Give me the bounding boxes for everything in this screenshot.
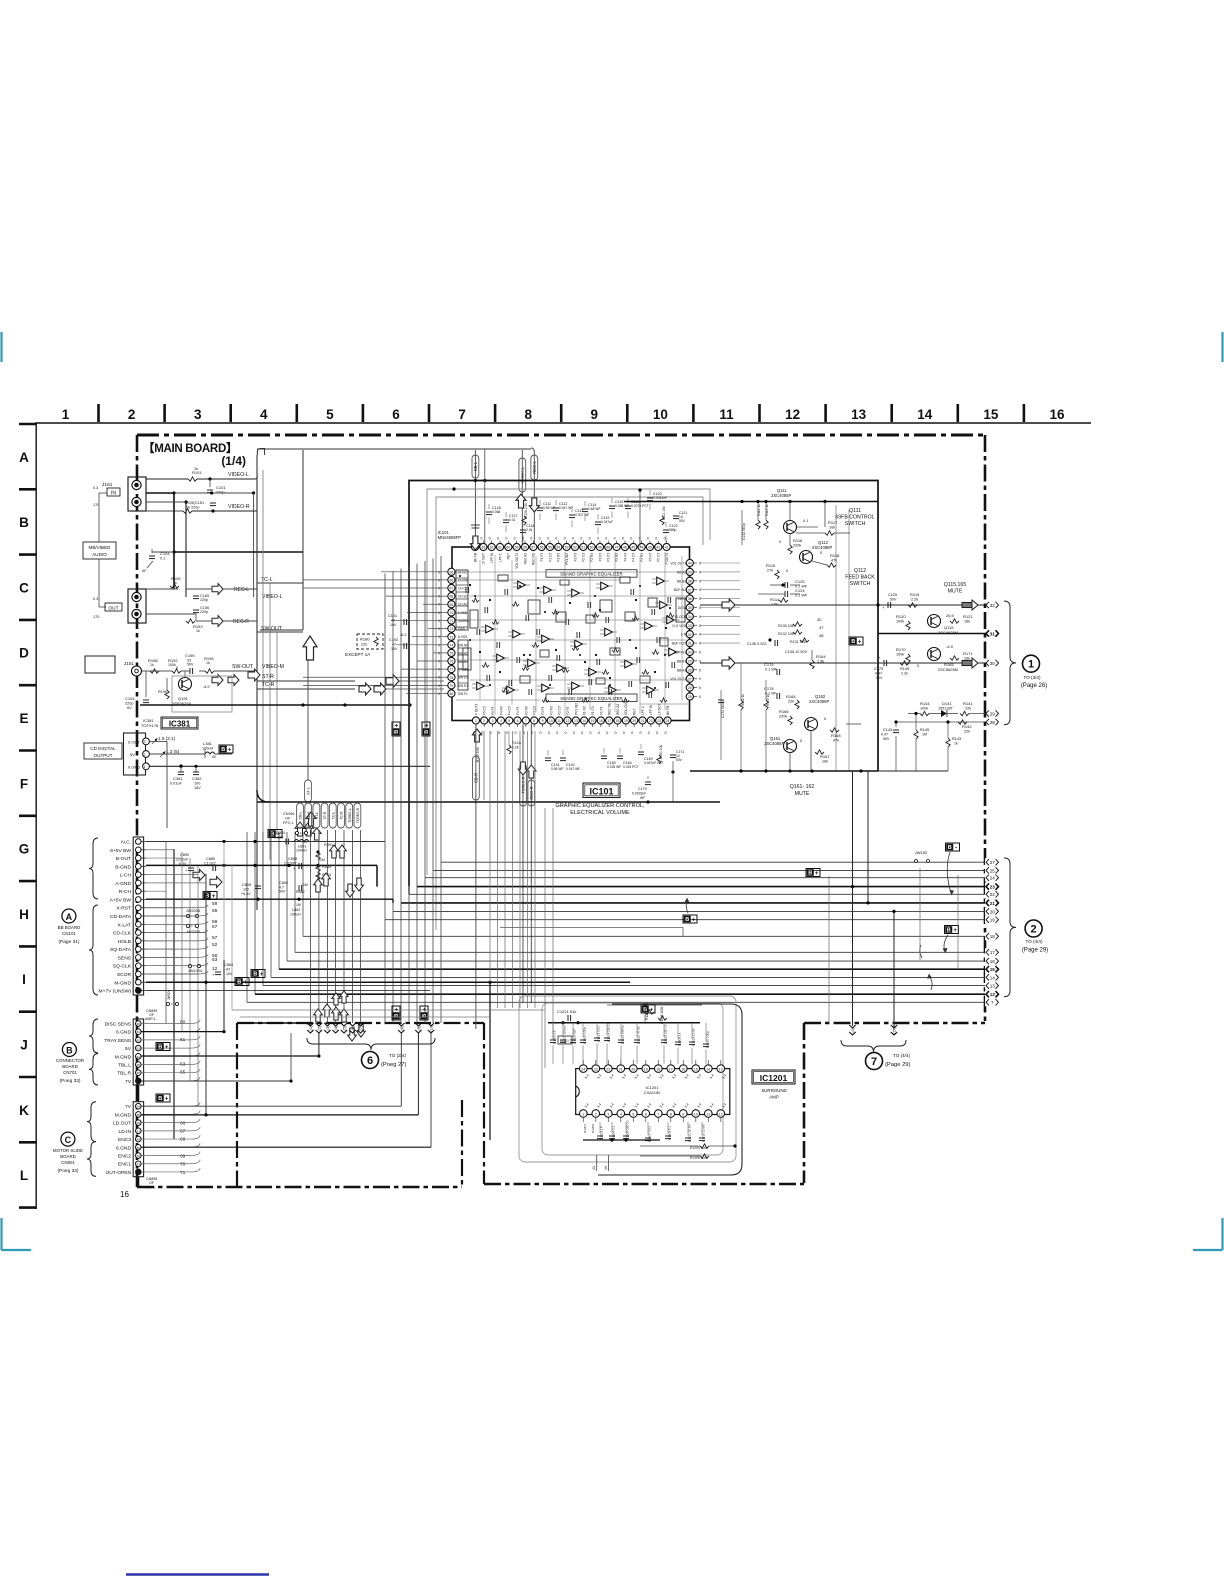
svg-text:WF: WF bbox=[640, 796, 645, 800]
svg-text:6.GND: 6.GND bbox=[116, 1145, 131, 1151]
svg-text:6: 6 bbox=[517, 719, 519, 723]
resistor R141 22k bbox=[960, 711, 969, 715]
brace outputs to page29 bbox=[1004, 858, 1016, 997]
svg-text:0: 0 bbox=[438, 643, 440, 647]
svg-text:R111 10k: R111 10k bbox=[662, 506, 666, 520]
svg-text:0: 0 bbox=[648, 731, 650, 735]
svg-text:6.GND: 6.GND bbox=[116, 1030, 131, 1036]
main board border right bbox=[984, 435, 987, 1023]
capacitor C178 0.1 RF bbox=[776, 693, 778, 699]
svg-text:C1202 51P: C1202 51P bbox=[573, 1029, 577, 1044]
vertical bus x263 bbox=[262, 470, 264, 890]
svg-text:9: 9 bbox=[542, 719, 544, 723]
wires right pins to Q section bbox=[700, 563, 740, 643]
svg-text:9: 9 bbox=[591, 407, 599, 422]
svg-text:(8): (8) bbox=[399, 1025, 404, 1031]
svg-text:F3 F3: F3 F3 bbox=[598, 553, 602, 562]
svg-text:69: 69 bbox=[180, 1153, 186, 1159]
svg-text:B: B bbox=[253, 972, 257, 978]
resistor R192 100k bbox=[172, 669, 181, 673]
svg-text:SQ-CLK: SQ-CLK bbox=[113, 964, 132, 970]
svg-text:OF: OF bbox=[285, 817, 291, 821]
bus corner verticals lower group bbox=[247, 832, 303, 1002]
svg-text:F5 C3: F5 C3 bbox=[657, 553, 661, 562]
svg-text:1: 1 bbox=[144, 765, 146, 769]
resistor R117 10k bbox=[825, 531, 834, 535]
svg-text:1.5 (2.1): 1.5 (2.1) bbox=[158, 736, 176, 741]
svg-text:60: 60 bbox=[506, 546, 510, 550]
svg-text:C135 10 50V: C135 10 50V bbox=[785, 650, 808, 654]
cap C892 bbox=[298, 885, 300, 891]
svg-text:0: 0 bbox=[438, 611, 440, 615]
svg-text:11: 11 bbox=[719, 407, 734, 422]
svg-text:FEED BACK: FEED BACK bbox=[845, 575, 875, 581]
svg-text:0: 0 bbox=[699, 686, 701, 690]
svg-text:B: B bbox=[394, 730, 400, 734]
svg-text:C101: C101 bbox=[216, 485, 226, 490]
svg-text:LD.IN: LD.IN bbox=[118, 1129, 131, 1135]
empty box D row bbox=[85, 656, 115, 673]
svg-text:0: 0 bbox=[176, 666, 178, 670]
svg-text:69: 69 bbox=[450, 603, 454, 607]
vertical wires to bottom chevrons bbox=[310, 830, 360, 1023]
svg-text:(10): (10) bbox=[429, 1024, 434, 1032]
pill REC-L top bbox=[533, 451, 535, 547]
svg-text:12: 12 bbox=[785, 407, 800, 422]
svg-text:0: 0 bbox=[539, 731, 541, 735]
svg-text:0: 0 bbox=[498, 731, 500, 735]
svg-text:(1/4): (1/4) bbox=[221, 454, 246, 468]
svg-text:6.3V: 6.3V bbox=[179, 862, 187, 866]
svg-text:JW2004: JW2004 bbox=[186, 930, 200, 934]
svg-text:CXA1150: CXA1150 bbox=[644, 1090, 662, 1095]
svg-text:R114: R114 bbox=[770, 597, 780, 602]
wire output 31 line bbox=[878, 633, 986, 635]
thick wire corner to chevron1 bbox=[240, 1023, 310, 1026]
svg-text:19: 19 bbox=[624, 719, 628, 723]
svg-text:16: 16 bbox=[1049, 407, 1065, 422]
svg-text:+: + bbox=[953, 928, 957, 934]
main board border bottom left bbox=[137, 1186, 462, 1189]
svg-text:B-GND: B-GND bbox=[115, 864, 131, 870]
svg-text:C884: C884 bbox=[224, 963, 233, 967]
svg-text:GND: GND bbox=[458, 627, 466, 631]
IC1201 routing enclosure gray outer bbox=[519, 996, 736, 1162]
svg-text:F3 R3: F3 R3 bbox=[524, 706, 528, 715]
svg-text:C125: C125 bbox=[888, 593, 897, 597]
svg-text:SENS: SENS bbox=[118, 955, 132, 961]
svg-text:SWITCH: SWITCH bbox=[850, 581, 871, 587]
pill ST-L tall bbox=[305, 780, 312, 802]
capacitor C143 0.47 50V bbox=[893, 729, 899, 731]
svg-text:67: 67 bbox=[450, 587, 454, 591]
registration mark right top bbox=[1221, 332, 1223, 362]
svg-text:2: 2 bbox=[595, 1112, 597, 1116]
svg-text:F2 C3: F2 C3 bbox=[582, 553, 586, 562]
curved arrow B- to line bbox=[947, 852, 951, 893]
IC1201 pin41 40 stubs bbox=[596, 1155, 598, 1171]
svg-text:AMP-L: AMP-L bbox=[145, 1186, 156, 1190]
svg-text:A: A bbox=[19, 450, 29, 465]
resistor R116 220k bbox=[788, 545, 792, 554]
svg-text:100k: 100k bbox=[896, 620, 904, 624]
svg-text:1M: 1M bbox=[296, 903, 301, 907]
resistor R144 100k bbox=[920, 711, 929, 715]
svg-text:6+5V BW: 6+5V BW bbox=[110, 848, 131, 854]
svg-text:50V: 50V bbox=[187, 663, 194, 667]
wire SW-OUT riser x303 bbox=[260, 629, 303, 631]
svg-text:(Page 31): (Page 31) bbox=[58, 939, 79, 945]
svg-text:2: 2 bbox=[483, 719, 485, 723]
output tags 27-7 bbox=[985, 858, 1001, 1006]
svg-text:65: 65 bbox=[137, 1063, 141, 1067]
IC101 left pin approach wires bbox=[303, 572, 444, 694]
svg-text:+: + bbox=[422, 1007, 428, 1011]
resistor R143 1k bbox=[946, 738, 950, 747]
open arrow on line 32 bbox=[722, 599, 735, 611]
svg-text:0.047 WF: 0.047 WF bbox=[566, 767, 580, 771]
svg-text:C1220 100p: C1220 100p bbox=[706, 1031, 710, 1048]
svg-text:2SC4085P: 2SC4085P bbox=[764, 741, 784, 746]
svg-text:TCREC-R: TCREC-R bbox=[522, 776, 526, 793]
svg-text:A+5V BW: A+5V BW bbox=[110, 897, 132, 903]
svg-text:C1209 0.1: C1209 0.1 bbox=[668, 1125, 672, 1140]
wire NC row bbox=[146, 841, 385, 843]
svg-text:0.OUT: 0.OUT bbox=[128, 740, 140, 745]
svg-text:70: 70 bbox=[137, 1154, 141, 1158]
svg-text:170: 170 bbox=[93, 503, 99, 507]
svg-text:ST-R: ST-R bbox=[262, 674, 274, 680]
svg-text:560p: 560p bbox=[669, 528, 677, 532]
dashed box EXCEPT 1A bbox=[357, 634, 383, 649]
svg-text:30: 30 bbox=[990, 661, 996, 666]
svg-text:0: 0 bbox=[639, 731, 641, 735]
svg-text:17: 17 bbox=[990, 950, 996, 955]
svg-text:C1.022: C1.022 bbox=[204, 862, 216, 866]
svg-text:OF: OF bbox=[149, 1181, 155, 1185]
svg-text:7: 7 bbox=[458, 407, 466, 422]
svg-text:C194: C194 bbox=[125, 696, 135, 701]
svg-text:F4 R3: F4 R3 bbox=[640, 553, 644, 562]
svg-text:155133T: 155133T bbox=[938, 707, 954, 711]
svg-text:20: 20 bbox=[631, 1067, 635, 1071]
svg-text:79: 79 bbox=[450, 684, 454, 688]
svg-text:11: 11 bbox=[557, 719, 561, 723]
svg-text:6: 6 bbox=[392, 407, 400, 422]
svg-text:R161 10k: R161 10k bbox=[659, 745, 663, 759]
transistor Q162 bbox=[805, 718, 818, 731]
thick ground wire y705 bbox=[140, 704, 410, 706]
svg-text:8: 8 bbox=[670, 1112, 672, 1116]
svg-text:0: 0 bbox=[438, 684, 440, 688]
svg-text:15: 15 bbox=[990, 967, 996, 972]
svg-text:MUTE: MUTE bbox=[948, 589, 963, 595]
IC101 right pin column pins 40-25 bbox=[670, 559, 701, 700]
svg-text:F5 F3: F5 F3 bbox=[491, 706, 495, 715]
svg-text:C1203 1P: C1203 1P bbox=[600, 1126, 604, 1140]
resistor R168 47k bbox=[830, 728, 839, 732]
resistor R167 16k bbox=[815, 750, 824, 754]
svg-text:LF OUT: LF OUT bbox=[658, 704, 662, 715]
svg-text:69: 69 bbox=[137, 1146, 141, 1150]
bracket connector A lower bbox=[89, 905, 98, 995]
connector CN801 body bbox=[133, 1102, 143, 1177]
svg-text:46: 46 bbox=[623, 546, 627, 550]
svg-text:0: 0 bbox=[573, 731, 575, 735]
svg-text:CH RE: CH RE bbox=[458, 578, 468, 582]
right bus horizontal lines with output tags bbox=[247, 862, 986, 1002]
svg-text:21: 21 bbox=[619, 1067, 623, 1071]
IC101 top pin names rotated bbox=[473, 552, 669, 568]
svg-text:F1 R3: F1 R3 bbox=[583, 706, 587, 715]
svg-text:62: 62 bbox=[490, 546, 494, 550]
vertical wire x484.8 bbox=[484, 449, 486, 543]
svg-text:VIBEO-L: VIBEO-L bbox=[262, 594, 283, 600]
svg-text:36: 36 bbox=[688, 597, 692, 601]
svg-text:IN: IN bbox=[111, 491, 116, 497]
bracket connector B upper bbox=[89, 1019, 98, 1053]
svg-text:ST-L: ST-L bbox=[307, 787, 311, 795]
circled 6 bbox=[362, 1052, 379, 1069]
resistor R105 REC-L bbox=[146, 588, 178, 590]
svg-text:66: 66 bbox=[137, 1071, 141, 1075]
svg-text:17: 17 bbox=[607, 719, 611, 723]
svg-text:CD-CLK: CD-CLK bbox=[113, 931, 132, 937]
resistor R198 bbox=[142, 670, 156, 672]
svg-text:32: 32 bbox=[990, 603, 996, 608]
svg-text:19: 19 bbox=[644, 1067, 648, 1071]
svg-text:CH SO: CH SO bbox=[458, 595, 469, 599]
svg-text:C1215 5600p: C1215 5600p bbox=[621, 1025, 625, 1044]
svg-text:REC-R: REC-R bbox=[529, 786, 534, 799]
svg-text:CONNECTOR: CONNECTOR bbox=[56, 1058, 84, 1063]
svg-text:51: 51 bbox=[581, 546, 585, 550]
svg-text:+: + bbox=[165, 1096, 169, 1102]
svg-text:CH CO: CH CO bbox=[458, 587, 469, 591]
vertical thick wire x490 to M-GND bbox=[489, 982, 491, 1140]
svg-text:43: 43 bbox=[648, 546, 652, 550]
svg-text:2.2k: 2.2k bbox=[911, 598, 918, 602]
svg-text:47k: 47k bbox=[833, 739, 839, 743]
svg-text:24: 24 bbox=[990, 876, 996, 881]
thick bend A+5V to line 21 bbox=[392, 899, 394, 903]
svg-text:R120: R120 bbox=[896, 614, 906, 619]
svg-text:TCREC-R: TCREC-R bbox=[356, 807, 360, 823]
svg-text:100uH: 100uH bbox=[290, 913, 301, 917]
wire video thick vertical x174 bbox=[173, 493, 175, 589]
svg-text:100k: 100k bbox=[896, 653, 904, 657]
resistor R163 1k vertical bbox=[764, 700, 768, 710]
svg-text:16V: 16V bbox=[390, 623, 397, 627]
svg-text:C890: C890 bbox=[180, 853, 189, 857]
svg-text:AF: AF bbox=[142, 569, 147, 573]
thick wire y552 bbox=[174, 551, 303, 553]
resistor R166 220k bbox=[788, 716, 792, 725]
svg-text:C1214 220 10: C1214 220 10 bbox=[607, 1022, 611, 1042]
svg-text:+: + bbox=[260, 972, 264, 978]
svg-text:0: 0 bbox=[614, 537, 616, 541]
svg-text:26: 26 bbox=[688, 686, 692, 690]
svg-text:REC RE: REC RE bbox=[532, 553, 536, 565]
svg-text:0: 0 bbox=[664, 731, 666, 735]
svg-text:0: 0 bbox=[631, 731, 633, 735]
svg-text:C1213 0.01: C1213 0.01 bbox=[597, 1026, 601, 1042]
chevrons to circled 7 bbox=[849, 1025, 855, 1028]
svg-text:41: 41 bbox=[592, 1166, 596, 1170]
svg-text:A: A bbox=[66, 912, 73, 922]
svg-text:R167: R167 bbox=[820, 754, 830, 759]
svg-text:R142: R142 bbox=[962, 724, 972, 729]
svg-text:0: 0 bbox=[438, 619, 440, 623]
svg-text:C179: C179 bbox=[638, 787, 647, 791]
svg-text:1k: 1k bbox=[150, 663, 154, 667]
svg-text:C192: C192 bbox=[389, 638, 398, 642]
svg-text:B: B bbox=[66, 1046, 73, 1056]
CD DIGITAL OUTPUT box bbox=[84, 743, 122, 759]
svg-text:B: B bbox=[685, 917, 689, 923]
left ruler letters A-L bbox=[19, 424, 36, 1208]
svg-text:9: 9 bbox=[682, 1112, 684, 1116]
IC381 boxed label bbox=[161, 717, 198, 729]
svg-text:0: 0 bbox=[630, 537, 632, 541]
svg-text:D141: D141 bbox=[942, 701, 952, 706]
svg-text:BOARD: BOARD bbox=[60, 1154, 76, 1159]
svg-text:0: 0 bbox=[438, 660, 440, 664]
svg-text:19: 19 bbox=[990, 918, 996, 923]
svg-text:IC381: IC381 bbox=[169, 719, 191, 728]
svg-text:B: B bbox=[158, 1045, 162, 1051]
svg-text:F1 F3: F1 F3 bbox=[599, 706, 603, 715]
svg-text:R112 1k: R112 1k bbox=[757, 504, 761, 516]
svg-text:100k: 100k bbox=[168, 663, 176, 667]
connector CN101 pins bbox=[99, 839, 146, 995]
svg-text:41: 41 bbox=[665, 546, 669, 550]
svg-text:66: 66 bbox=[450, 579, 454, 583]
svg-text:B: B bbox=[19, 515, 29, 530]
svg-text:50: 50 bbox=[590, 546, 594, 550]
svg-text:C136 0.022: C136 0.022 bbox=[747, 642, 767, 646]
circled B bbox=[62, 1043, 76, 1057]
main board border divider x462 bbox=[461, 1100, 463, 1187]
up arrows FFC area bbox=[295, 822, 305, 836]
svg-text:(Page 29): (Page 29) bbox=[1022, 948, 1048, 954]
arrow cluster bottom band bbox=[314, 1009, 323, 1022]
main board border bottom right bbox=[484, 1183, 804, 1186]
pill TCREC-L top bbox=[521, 450, 523, 547]
svg-text:SW-OUT: SW-OUT bbox=[232, 664, 254, 670]
svg-text:71: 71 bbox=[450, 619, 454, 623]
svg-text:SW NF: SW NF bbox=[458, 643, 468, 647]
pill TCREC-R below bbox=[522, 724, 524, 1003]
svg-text:SBAND GRAPHIC EQUALIZER: SBAND GRAPHIC EQUALIZER bbox=[560, 572, 622, 577]
svg-text:BK FB: BK FB bbox=[473, 553, 477, 562]
svg-text:0: 0 bbox=[438, 627, 440, 631]
wire M+7V row bbox=[146, 989, 430, 991]
left ruler line bbox=[35, 423, 37, 1209]
svg-text:+: + bbox=[394, 1007, 400, 1011]
resistor R112 R113 1k bbox=[756, 520, 760, 529]
svg-text:X-LAT: X-LAT bbox=[118, 922, 132, 928]
svg-text:100: 100 bbox=[243, 888, 249, 892]
svg-text:28: 28 bbox=[688, 668, 692, 672]
svg-text:ST-R: ST-R bbox=[323, 811, 327, 819]
svg-text:C382: C382 bbox=[192, 776, 202, 781]
svg-text:80: 80 bbox=[450, 692, 454, 696]
svg-text:M+7V (UNSW): M+7V (UNSW) bbox=[99, 989, 132, 995]
registration mark left bottom L bbox=[0, 1218, 2, 1250]
svg-text:68: 68 bbox=[450, 595, 454, 599]
circled C bbox=[61, 1132, 75, 1146]
svg-text:12: 12 bbox=[566, 719, 570, 723]
svg-text:0: 0 bbox=[581, 731, 583, 735]
svg-text:EXCEPT 1A: EXCEPT 1A bbox=[345, 652, 371, 657]
svg-text:F4 F3: F4 F3 bbox=[516, 706, 520, 715]
svg-text:LPF C: LPF C bbox=[498, 552, 502, 562]
big arrow output 32 bbox=[962, 602, 972, 607]
svg-text:2SC4088P: 2SC4088P bbox=[809, 699, 829, 704]
svg-text:F2 R3: F2 R3 bbox=[590, 553, 594, 562]
svg-text:0: 0 bbox=[505, 537, 507, 541]
svg-text:M.GND: M.GND bbox=[115, 1112, 132, 1118]
svg-text:PV1 IN2: PV1 IN2 bbox=[574, 703, 578, 715]
svg-text:BUF IN2: BUF IN2 bbox=[674, 588, 686, 592]
svg-text:0: 0 bbox=[438, 635, 440, 639]
svg-text:0.3: 0.3 bbox=[93, 597, 98, 601]
B+ box bus3 bbox=[683, 915, 697, 923]
resistor R115 27k bbox=[775, 570, 779, 579]
svg-text:R-CH: R-CH bbox=[119, 889, 132, 895]
svg-text:(7): (7) bbox=[358, 1025, 363, 1031]
svg-text:0: 0 bbox=[539, 537, 541, 541]
svg-text:1: 1 bbox=[582, 1112, 584, 1116]
IC1201 routing enclosure gray inner bbox=[542, 1003, 723, 1155]
svg-text:C1218 220 10: C1218 220 10 bbox=[664, 1024, 668, 1044]
svg-text:0: 0 bbox=[438, 570, 440, 574]
svg-text:RET: RET bbox=[507, 553, 511, 559]
svg-text:13: 13 bbox=[851, 407, 867, 422]
wire M.GND B thick bbox=[141, 1055, 319, 1057]
svg-text:(Poeg 27): (Poeg 27) bbox=[381, 1062, 407, 1068]
svg-text:CN701: CN701 bbox=[63, 1070, 77, 1075]
capacitor C175 bbox=[883, 660, 885, 666]
svg-text:0: 0 bbox=[699, 588, 701, 592]
svg-text:220k: 220k bbox=[793, 544, 801, 548]
svg-text:23: 23 bbox=[990, 885, 996, 890]
wire vertical x253.6 bbox=[253, 493, 255, 597]
capacitor C101 220p bbox=[208, 477, 211, 480]
svg-text:F3 F3: F3 F3 bbox=[541, 706, 545, 715]
footer blue line bbox=[126, 1573, 269, 1575]
transistor Q115 bbox=[928, 615, 941, 628]
svg-text:31: 31 bbox=[688, 642, 692, 646]
svg-text:3: 3 bbox=[194, 407, 202, 422]
svg-text:48: 48 bbox=[819, 633, 824, 638]
svg-text:A VSS: A VSS bbox=[458, 635, 467, 639]
brace circled 7 bbox=[841, 1040, 906, 1052]
svg-text:1M: 1M bbox=[303, 883, 308, 887]
resistor R119 2.2k bbox=[908, 603, 917, 607]
svg-text:64: 64 bbox=[137, 1055, 141, 1059]
bracket connector B lower bbox=[89, 1054, 98, 1085]
svg-text:16V: 16V bbox=[391, 647, 398, 651]
svg-text:0.68 WF: 0.68 WF bbox=[588, 507, 600, 511]
svg-text:17: 17 bbox=[669, 1067, 673, 1071]
svg-text:GRAPHIC EQUALIZER CONTROL,: GRAPHIC EQUALIZER CONTROL, bbox=[555, 803, 645, 809]
svg-text:15: 15 bbox=[694, 1067, 698, 1071]
svg-text:C898: C898 bbox=[288, 857, 297, 861]
resistor R170 100k bbox=[906, 654, 910, 663]
wires bottom right to ground bus bbox=[895, 736, 897, 771]
